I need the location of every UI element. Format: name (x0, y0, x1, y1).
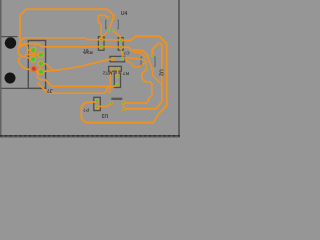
pad EN-1 (95, 99, 99, 103)
wire U3 left pad to EN bottom (97, 103, 111, 107)
pad R?-2 (116, 67, 119, 70)
wire U2 BR merge (152, 69, 162, 84)
wire P5 merge (43, 64, 52, 69)
svg-text:U4: U4 (121, 11, 128, 17)
wire R1 top to R2 top (103, 39, 119, 41)
pad U2-2 (151, 54, 154, 57)
wire U4 cross diagonal (109, 18, 114, 31)
pad J?-4 (37, 51, 44, 58)
mounting hole H1 (5, 37, 16, 48)
pad U4-2 (112, 16, 115, 19)
wire C right pad to U2 BL (124, 58, 146, 68)
resistor vertical outline (114, 73, 120, 88)
component U2 silkscreen (141, 57, 155, 67)
pad U2-1 (146, 55, 149, 58)
wire U4 TL pad stub (98, 15, 107, 17)
pad U4-1 (107, 16, 110, 19)
connector J? outline (28, 41, 45, 89)
pad R1-1 (99, 38, 103, 41)
frame left (0, 0, 2, 138)
pad C-2 (121, 57, 124, 60)
board background (0, 0, 180, 138)
wire L2 lower horizontal (37, 83, 110, 94)
resistor R? horizontal outline (109, 66, 122, 71)
jumper U3 body bar (111, 98, 122, 100)
pad U3-RT (122, 101, 126, 105)
wire ring to P2 (25, 56, 32, 59)
pad J?-5 (37, 60, 44, 67)
wire R? right pad down to R vertical (117, 71, 119, 75)
svg-text:J?: J? (47, 87, 53, 93)
wire snake U2 BL to U3 RT pad (125, 69, 152, 103)
wire fan to R1 bottom (20, 44, 99, 48)
svg-text:MT2: MT2 (102, 69, 112, 75)
wire U4 BR down to R2 top (114, 30, 121, 38)
wire branch cap to U2 area (125, 60, 146, 67)
svg-text:U3: U3 (102, 112, 109, 118)
wire inner arc into U2 (133, 52, 145, 58)
pad R?-1 (110, 67, 113, 70)
pad J?-1 (30, 47, 37, 54)
wire L1 to R vertical bottom pad (35, 70, 117, 86)
pad Rv-2 (115, 83, 119, 86)
svg-text:R1?: R1? (84, 49, 93, 55)
pad Rv-1 (115, 75, 119, 78)
pad R2-1 (119, 39, 123, 42)
component EN outline (94, 97, 101, 110)
wire ring down to P3 (19, 57, 32, 70)
wire ring to P4 (27, 54, 38, 56)
mounting hole H2 (5, 73, 16, 84)
wire ring to P1 (28, 49, 31, 51)
svg-text:P?: P? (83, 108, 89, 113)
pad R1-2 (99, 45, 103, 48)
wire P1 up and over to R1 top (20, 38, 99, 42)
pad EN-2 (95, 106, 99, 110)
pad U3-L (109, 101, 113, 105)
wire P1 to bus (33, 44, 36, 50)
wire stub down to R1 top (98, 15, 101, 38)
svg-text:U2: U2 (158, 69, 164, 76)
component U4 silkscreen (106, 20, 119, 30)
wire R? left pad down to L2 (108, 71, 112, 94)
pad U4-4 (113, 29, 116, 32)
wire R2 bottom to U2 TL (121, 47, 147, 55)
silkscreen board edge line (0, 87, 47, 89)
pad U3-RB (122, 107, 126, 111)
frame right (178, 0, 180, 138)
pad R2-2 (119, 46, 123, 49)
node ring near J? (18, 44, 27, 56)
pad U2-4 (151, 68, 154, 71)
wire R1 bottom to R2 bottom (103, 46, 119, 48)
capacitor C outline (110, 56, 125, 61)
wire U4 BL down to R1 (102, 31, 109, 37)
wire R2 bottom to cap right (121, 49, 123, 57)
pad J?-3 highlighted (30, 65, 37, 72)
wire net U2TR down right side to U3 pad (125, 43, 162, 108)
pad U4-3 (107, 29, 110, 32)
pad U2-3 (145, 68, 148, 71)
svg-text:C?: C? (123, 51, 129, 56)
wire U3 pad link (122, 104, 124, 108)
resistor R1 outline (98, 37, 104, 51)
pad C-1 (112, 57, 115, 60)
wire top-left to U4 pin (20, 9, 114, 47)
wire U2 cross diagonal (147, 56, 152, 69)
resistor R2 outline (118, 38, 123, 51)
pad J?-2 (30, 56, 37, 63)
wire net R2top loop around right to EN top (81, 36, 166, 122)
pad J?-6 (38, 68, 45, 75)
wire P6 rising to C pad (43, 59, 112, 71)
svg-text:R?: R? (123, 70, 129, 76)
silkscreen line left of hole (0, 36, 18, 38)
frame bottom (0, 135, 180, 137)
